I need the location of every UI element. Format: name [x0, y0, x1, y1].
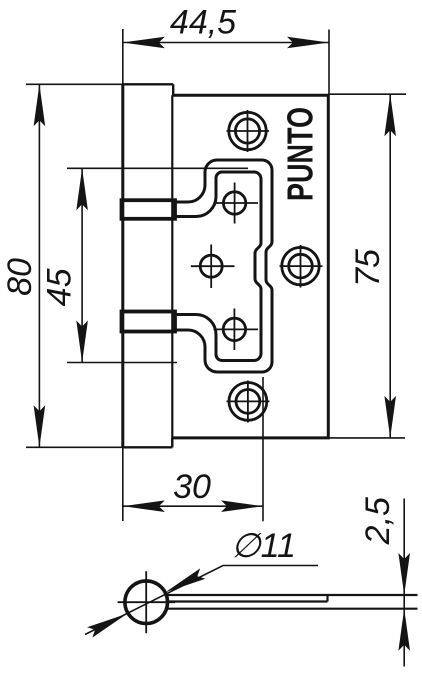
dimension 30 extension line right [262, 377, 264, 521]
dimension 2,5 line [403, 499, 405, 667]
svg-text:30: 30 [173, 468, 211, 506]
dimension 44,5 extension line left [122, 29, 124, 85]
countersunk hole top [227, 110, 270, 152]
dimension 80 arrow up [34, 84, 46, 126]
knuckle 1 (upper barrel section) [122, 200, 176, 219]
dimension 75 extension line top [328, 93, 406, 95]
dimension 30 line [123, 505, 263, 507]
folded leaf inner contour [175, 172, 262, 361]
diameter leader line [85, 566, 318, 635]
side view plate seam line [168, 595, 328, 602]
dimension 30 extension line left [122, 447, 124, 521]
dimension 2,5 arrow down (above) [398, 553, 410, 595]
dimension 80 extension line top [26, 83, 123, 85]
dimension 45 extension line top [67, 167, 248, 169]
dimension 80 line [38, 84, 40, 447]
dimension 80 arrow down [34, 405, 46, 447]
diameter leader arrow upper-right [163, 568, 206, 597]
dimension 75 extension line bottom [328, 437, 405, 439]
dimension 45 arrow up [76, 168, 88, 210]
svg-text:∅11: ∅11 [231, 527, 296, 565]
dimension 75 arrow down [384, 396, 396, 438]
side view barrel circle [125, 581, 168, 624]
dimension 75 line [389, 94, 391, 438]
dimension 30 arrow right [221, 500, 263, 512]
dimension 45 arrow down [76, 321, 88, 363]
svg-text:44,5: 44,5 [170, 4, 236, 42]
dimension 45 line [81, 168, 83, 362]
side view plate bottom edge [166, 608, 417, 610]
knuckle 2 (lower barrel section) [122, 312, 176, 332]
side view barrel crosshair [118, 571, 175, 633]
dimension 44,5 line [123, 42, 329, 44]
hinge flap (frame leaf, edge-on strip) outline [123, 84, 173, 447]
side view plate top edge [166, 594, 417, 596]
countersunk hole right [280, 245, 323, 288]
dimension 30 arrow left [123, 500, 165, 512]
dimension 44,5 extension line right [328, 30, 330, 96]
dimension 44,5 arrow right [287, 37, 329, 49]
leaf hole top [214, 183, 259, 224]
dimension 80 extension line bottom [26, 446, 123, 448]
leaf hole middle [191, 245, 235, 289]
dimension 44,5 arrow left [123, 37, 165, 49]
dimension 45 extension line bottom [67, 362, 177, 364]
dimension 2,5 arrow up (below) [398, 609, 410, 651]
countersunk hole bottom [227, 381, 270, 423]
diameter leader arrow lower-left [87, 608, 130, 637]
folded leaf outer contour [175, 160, 273, 372]
svg-text:45: 45 [41, 268, 79, 306]
svg-text:2,5: 2,5 [359, 497, 397, 545]
svg-text:75: 75 [349, 249, 387, 287]
hinge plate outline [172, 95, 328, 438]
dimension 75 arrow up [384, 94, 396, 136]
svg-text:PUNTO: PUNTO [280, 107, 321, 201]
leaf hole bottom [214, 309, 259, 351]
svg-text:80: 80 [1, 258, 39, 296]
